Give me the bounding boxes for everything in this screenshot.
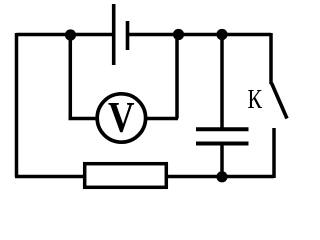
wire: bottom-left horizontal segment (left corner to resistor) bbox=[15, 175, 85, 179]
wire: voltmeter branch left vertical bbox=[69, 35, 73, 119]
node A: junction dot top-left (voltmeter tap) bbox=[65, 29, 76, 40]
node C: junction dot (capacitor branch on top wire) bbox=[216, 29, 227, 40]
resistor R1 (rectangle) bbox=[85, 164, 167, 188]
wire: capacitor branch vertical from node C to top plate bbox=[220, 35, 224, 131]
svg-text:V: V bbox=[108, 94, 135, 141]
wire: capacitor branch vertical from bottom plate to node D bbox=[220, 144, 224, 178]
wire: voltmeter branch right horizontal from meter bbox=[146, 117, 178, 121]
wire: bottom-right horizontal segment (resistor to bottom-right corner) bbox=[166, 175, 274, 179]
battery B1: short plate (negative) bbox=[126, 21, 130, 50]
wire: top-left horizontal segment (left corner to battery long plate) bbox=[17, 33, 113, 37]
wire: top horizontal segment (battery short plate to top-right corner) bbox=[129, 33, 271, 37]
wire: right vertical from switch lower contact to bottom-right corner bbox=[272, 128, 276, 178]
op-amp: voltmeter V1 circle body bbox=[97, 94, 145, 142]
node D: junction dot (capacitor branch on bottom wire) bbox=[216, 171, 227, 182]
capacitor C1: bottom plate bbox=[196, 142, 249, 146]
node B: junction dot (voltmeter branch on top wire) bbox=[173, 29, 184, 40]
wire: left vertical side of outer loop bbox=[15, 33, 19, 177]
battery B1: long plate (positive) bbox=[112, 4, 116, 65]
svg-text:К: К bbox=[248, 84, 263, 114]
wire: voltmeter branch right vertical up to node B bbox=[175, 34, 179, 119]
switch K: open blade bbox=[272, 83, 288, 119]
capacitor C1: top plate bbox=[196, 127, 249, 131]
wire: voltmeter branch left horizontal to meter bbox=[69, 117, 98, 121]
wire: right vertical from top-right corner down to switch contact bbox=[269, 33, 273, 84]
